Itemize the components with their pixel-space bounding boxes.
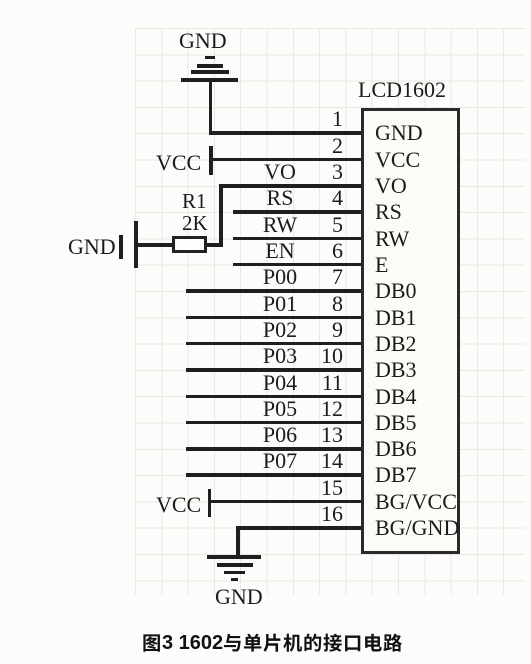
node label EN (pin 6 net) bbox=[240, 240, 320, 262]
IC pin label GND (pin 1) bbox=[375, 122, 423, 144]
pin number 8 bbox=[293, 293, 343, 315]
wire: pin 16 down to bottom GND bbox=[236, 526, 240, 556]
IC pin label BG/VCC (pin 15) bbox=[375, 491, 457, 513]
node label P02 (pin 9 net) bbox=[240, 319, 320, 341]
wire: pin 9 net bbox=[186, 342, 362, 346]
pin number 2 bbox=[293, 135, 343, 157]
wire: pin 12 net bbox=[186, 421, 362, 425]
svg-text:3 1602: 3 1602 bbox=[162, 632, 223, 654]
pin number 1 bbox=[293, 108, 343, 130]
node label P01 (pin 8 net) bbox=[240, 293, 320, 315]
node label P04 (pin 11 net) bbox=[240, 372, 320, 394]
IC pin label DB7 (pin 14) bbox=[375, 464, 417, 486]
IC pin label RW (pin 5) bbox=[375, 228, 409, 250]
wire: pin 2 net bbox=[211, 158, 362, 162]
wire: R1 to VO net (vertical) bbox=[207, 243, 221, 247]
pin number 10 bbox=[293, 345, 343, 367]
node label RW (pin 5 net) bbox=[240, 214, 320, 236]
pin number 11 bbox=[293, 372, 343, 394]
ground GND (top) bbox=[0, 0, 531, 1]
IC U1 LCD1602 bbox=[0, 0, 531, 1]
wire: pin 5 net bbox=[233, 237, 362, 241]
IC pin label VO (pin 3) bbox=[375, 175, 407, 197]
pin number 7 bbox=[293, 266, 343, 288]
IC pin label VCC (pin 2) bbox=[375, 149, 420, 171]
pin number 16 bbox=[293, 503, 343, 525]
IC pin label E (pin 6) bbox=[375, 254, 388, 276]
wire: pin 14 net bbox=[186, 473, 362, 477]
wire: pin 1 net bbox=[209, 131, 363, 135]
node label P03 (pin 10 net) bbox=[240, 345, 320, 367]
ground GND (left of R1) bbox=[0, 0, 531, 1]
node label P07 (pin 14 net) bbox=[240, 450, 320, 472]
node label P00 (pin 7 net) bbox=[240, 266, 320, 288]
pin number 13 bbox=[293, 424, 343, 446]
pin number 4 bbox=[293, 187, 343, 209]
power VCC (bottom, pin 15) bbox=[0, 0, 531, 1]
pin number 5 bbox=[293, 214, 343, 236]
IC pin label DB0 (pin 7) bbox=[375, 280, 417, 302]
wire: pin 4 net bbox=[233, 210, 362, 214]
wire: pin 10 net bbox=[186, 368, 362, 372]
IC pin label DB3 (pin 10) bbox=[375, 359, 417, 381]
wire: pin 16 net bbox=[237, 526, 362, 530]
wire: pin 6 net bbox=[233, 263, 362, 267]
wire: pin 3 net bbox=[219, 184, 362, 188]
node label VO (pin 3 net) bbox=[240, 161, 320, 183]
IC pin label DB6 (pin 13) bbox=[375, 438, 417, 460]
node label RS (pin 4 net) bbox=[240, 187, 320, 209]
wire: pin 7 net bbox=[186, 289, 362, 293]
pin number 6 bbox=[293, 240, 343, 262]
pin number 3 bbox=[293, 161, 343, 183]
pin number 12 bbox=[293, 398, 343, 420]
IC pin label BG/GND (pin 16) bbox=[375, 517, 459, 539]
IC pin label DB4 (pin 11) bbox=[375, 386, 417, 408]
wire: top GND down to pin 1 bbox=[209, 81, 213, 135]
wire: pin 8 net bbox=[186, 316, 362, 320]
background grid (decorative) bbox=[135, 28, 525, 595]
wire: left GND to R1 bbox=[138, 243, 172, 247]
node label P05 (pin 12 net) bbox=[240, 398, 320, 420]
IC pin label DB5 (pin 12) bbox=[375, 412, 417, 434]
wire: pin 13 net bbox=[186, 447, 362, 451]
pin number 14 bbox=[293, 450, 343, 472]
IC pin label RS (pin 4) bbox=[375, 201, 402, 223]
IC pin label DB2 (pin 9) bbox=[375, 333, 417, 355]
wire: pin 11 net bbox=[186, 395, 362, 399]
caption: 图3 1602与单片机的接口电路 bbox=[139, 629, 419, 659]
pin number 9 bbox=[293, 319, 343, 341]
IC pin label DB1 (pin 8) bbox=[375, 307, 417, 329]
power VCC (top, pin 2) bbox=[0, 0, 531, 1]
node label P06 (pin 13 net) bbox=[240, 424, 320, 446]
wire: pin 15 net bbox=[211, 500, 362, 504]
pin number 15 bbox=[293, 477, 343, 499]
resistor R1 2K bbox=[0, 0, 531, 1]
ground GND (bottom) bbox=[0, 0, 531, 1]
